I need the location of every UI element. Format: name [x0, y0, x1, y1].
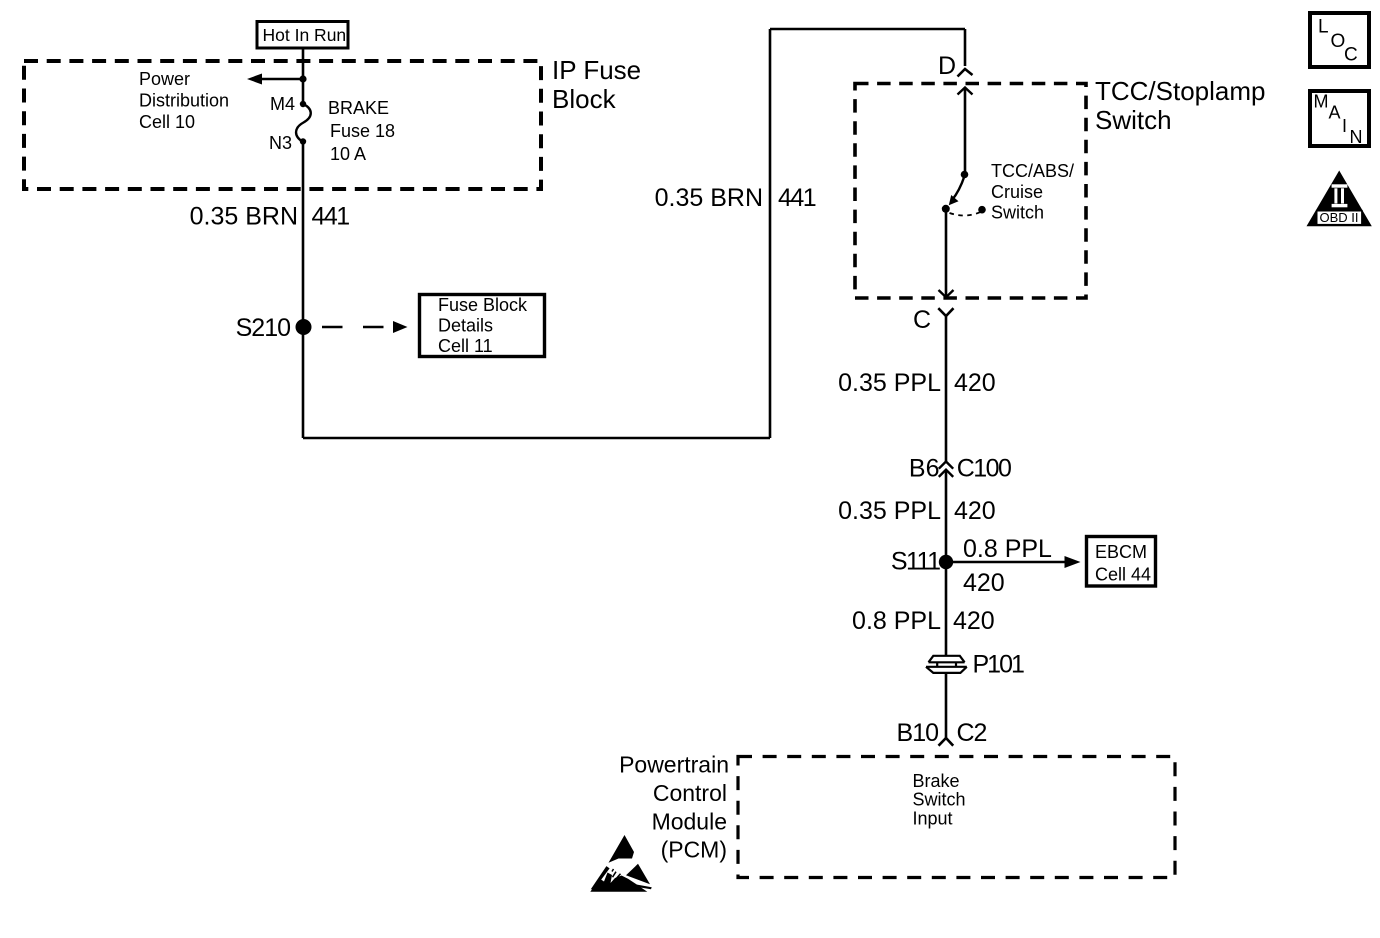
- svg-text:Hot In Run: Hot In Run: [263, 25, 347, 45]
- svg-text:0.8 PPL: 0.8 PPL: [852, 607, 941, 635]
- PCM dashed box: [738, 757, 1175, 878]
- svg-text:D: D: [938, 52, 956, 80]
- svg-text:S111: S111: [891, 548, 940, 576]
- ESD warning symbol: [590, 835, 651, 892]
- splice S210 dot: [296, 319, 312, 335]
- wire: riser up right side: [769, 29, 772, 438]
- svg-text:B10: B10: [897, 719, 939, 747]
- MAIN flag: [1310, 91, 1369, 147]
- fuse terminal M4 dot: [300, 101, 306, 107]
- wire: bottom run from corner to riser: [303, 437, 770, 440]
- wire label 0.35 PPL 420 (lower): [838, 497, 996, 525]
- OBD II flag: [1307, 171, 1372, 227]
- Hot In Run label box: [257, 22, 348, 49]
- EBCM Cell 44 box: [1087, 537, 1156, 587]
- svg-text:L: L: [1318, 17, 1329, 38]
- wire: N3 down through S210 to lower corner: [302, 142, 305, 439]
- svg-text:A: A: [1329, 102, 1341, 122]
- switch blade with arrowhead: [949, 176, 965, 205]
- terminal chevron at D: [958, 69, 973, 77]
- wire: S111 to P101: [945, 562, 948, 656]
- terminal fork at C: [938, 308, 953, 316]
- wire label 0.35 BRN 441 (right): [655, 184, 816, 212]
- svg-text:441: 441: [312, 203, 350, 231]
- cruise contact dot: [978, 206, 986, 214]
- svg-text:B6: B6: [909, 455, 940, 483]
- dashed reference arrow to Fuse Block Details: [322, 321, 408, 333]
- svg-text:OBD II: OBD II: [1320, 210, 1359, 225]
- wire: top run to D drop: [770, 28, 965, 31]
- svg-text:N3: N3: [269, 133, 292, 153]
- svg-text:0.35 BRN: 0.35 BRN: [190, 203, 298, 231]
- arrow to Power Distribution: [247, 74, 303, 85]
- svg-text:I: I: [1342, 116, 1347, 136]
- IP Fuse Block dashed box: [24, 61, 541, 189]
- up arrow into switch: [958, 88, 973, 95]
- wire label 0.8 PPL 420 (branch): [963, 535, 1052, 597]
- TCC/Stoplamp Switch dashed box: [855, 84, 1086, 299]
- svg-text:420: 420: [954, 497, 996, 525]
- svg-text:S210: S210: [236, 314, 290, 342]
- junction dot at arrow: [299, 75, 306, 82]
- svg-text:M4: M4: [270, 94, 295, 114]
- svg-text:441: 441: [778, 184, 816, 212]
- wire label 0.35 BRN 441 (left): [190, 203, 350, 231]
- wire label 0.8 PPL 420: [852, 607, 995, 635]
- wire: P101 to B10: [945, 673, 948, 738]
- wire: C100 to S111: [945, 470, 948, 562]
- svg-text:M: M: [1314, 92, 1329, 112]
- svg-text:0.35 PPL: 0.35 PPL: [838, 369, 941, 397]
- terminal fork at B10: [939, 738, 954, 746]
- svg-text:C: C: [1344, 45, 1358, 66]
- svg-text:0.35 BRN: 0.35 BRN: [655, 184, 763, 212]
- wire: C to C100: [945, 316, 948, 461]
- wire: D to switch pivot: [964, 88, 967, 175]
- svg-text:0.8 PPL: 0.8 PPL: [963, 535, 1052, 563]
- splice S111 dot: [939, 555, 953, 569]
- svg-text:420: 420: [963, 569, 1005, 597]
- switch pivot dot: [961, 171, 969, 179]
- svg-text:0.35 PPL: 0.35 PPL: [838, 497, 941, 525]
- wire label 0.35 PPL 420 (upper): [838, 369, 996, 397]
- wire: drop to D terminal: [964, 29, 967, 66]
- grommet P101: [926, 656, 967, 673]
- switch common dot: [942, 205, 950, 213]
- Fuse Block Details Cell 11 box: [420, 295, 545, 357]
- svg-text:420: 420: [953, 607, 995, 635]
- svg-text:C: C: [913, 306, 931, 334]
- fuse BRAKE Fuse 18 element: [296, 104, 311, 142]
- wire: switch to C with down arrow: [939, 209, 954, 297]
- dashed link to cruise contact: [950, 212, 981, 216]
- connector C100 chevrons: [939, 462, 953, 477]
- fuse terminal N3 dot: [300, 138, 306, 144]
- svg-text:420: 420: [954, 369, 996, 397]
- wire: Hot In Run down to fuse terminal M4: [302, 48, 305, 104]
- svg-text:C2: C2: [957, 719, 987, 747]
- svg-text:N: N: [1350, 127, 1363, 147]
- wire: S111 to EBCM arrow: [946, 556, 1081, 568]
- svg-text:P101: P101: [973, 651, 1024, 679]
- LOC flag: [1310, 13, 1369, 67]
- svg-text:C100: C100: [957, 455, 1011, 483]
